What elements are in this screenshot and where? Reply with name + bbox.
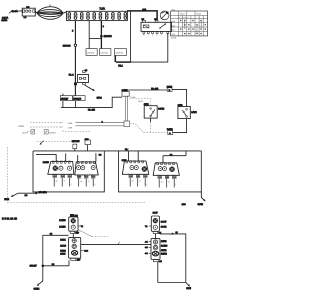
- svg-text:4-3: 4-3: [145, 252, 148, 255]
- svg-text:6: 6: [63, 130, 65, 133]
- svg-text:RL-1/8: RL-1/8: [151, 87, 159, 90]
- svg-text:3C/4A: 3C/4A: [2, 16, 9, 19]
- svg-text:4/57: 4/57: [77, 259, 81, 262]
- svg-text:2: 2: [175, 183, 176, 186]
- svg-text:4-1: 4-1: [145, 241, 148, 244]
- svg-text:8V58: 8V58: [198, 203, 204, 206]
- svg-text:4M/MO: 4M/MO: [49, 131, 56, 134]
- svg-text:8/45: 8/45: [139, 100, 144, 103]
- svg-text:31/4B: 31/4B: [2, 19, 8, 22]
- svg-text:31/51: 31/51: [34, 287, 40, 290]
- svg-text:2: 2: [152, 34, 153, 37]
- svg-text:4/5S: 4/5S: [143, 103, 148, 106]
- svg-text:4B9: 4B9: [85, 138, 90, 141]
- svg-text:4/57: 4/57: [75, 232, 79, 235]
- svg-text:S/C046: S/C046: [63, 44, 71, 47]
- svg-text:11KQ/9: 11KQ/9: [100, 52, 108, 55]
- svg-text:31: 31: [88, 180, 90, 183]
- svg-text:6AT8: 6AT8: [191, 111, 197, 114]
- svg-text:2: 2: [95, 183, 96, 186]
- svg-text:4B: 4B: [80, 180, 83, 183]
- svg-text:3C: 3C: [25, 194, 28, 197]
- svg-text:11KQ/7: 11KQ/7: [61, 97, 69, 100]
- svg-text:S/C005: S/C005: [72, 140, 80, 143]
- svg-text:1O36: 1O36: [60, 245, 66, 248]
- svg-text:RL-1/8: RL-1/8: [88, 108, 96, 111]
- svg-text:16S1: 16S1: [60, 238, 66, 241]
- svg-text:T1: T1: [145, 225, 148, 228]
- svg-text:1O/56: 1O/56: [59, 219, 66, 222]
- svg-text:50-53: 50-53: [196, 12, 201, 15]
- svg-text:15A: 15A: [142, 9, 147, 12]
- svg-text:1 2 3 4 5 6 7: 1 2 3 4 5 6 7: [179, 16, 188, 19]
- svg-text:T1: T1: [81, 225, 84, 228]
- svg-text:1O/30: 1O/30: [161, 245, 168, 248]
- svg-text:8-4/5: 8-4/5: [131, 96, 137, 99]
- svg-text:6/7S: 6/7S: [178, 104, 183, 107]
- svg-text:1638: 1638: [60, 253, 66, 256]
- svg-text:JA/TO: JA/TO: [22, 131, 28, 134]
- svg-text:16S2: 16S2: [60, 249, 66, 252]
- svg-text:4: 4: [161, 34, 162, 37]
- svg-text:RL1: RL1: [118, 65, 123, 68]
- svg-text:6: 6: [103, 25, 104, 28]
- svg-text:66: 66: [176, 231, 178, 234]
- svg-text:3B: 3B: [99, 153, 102, 156]
- svg-text:16K2: 16K2: [161, 249, 167, 252]
- svg-text:11KQ/8: 11KQ/8: [87, 52, 95, 55]
- svg-text:b: b: [102, 120, 103, 123]
- svg-text:B4AH: B4AH: [158, 107, 164, 110]
- svg-text:16/38: 16/38: [161, 253, 167, 256]
- svg-text:7.5A: 7.5A: [99, 8, 105, 11]
- svg-text:1O/15: 1O/15: [43, 161, 50, 164]
- svg-text:E4/1: E4/1: [4, 198, 9, 201]
- svg-text:RL-1: RL-1: [69, 74, 75, 77]
- svg-text:1: 1: [148, 34, 149, 37]
- svg-text:11KQ/6: 11KQ/6: [74, 97, 82, 100]
- svg-text:4-2: 4-2: [145, 246, 148, 249]
- svg-text:1O4: 1O4: [84, 250, 88, 253]
- svg-text:S/C8: S/C8: [97, 96, 103, 99]
- svg-text:F/RB: F/RB: [68, 122, 73, 125]
- svg-text:B 5 31 32 4B: B 5 31 32 4B: [2, 218, 17, 221]
- svg-text:3: 3: [156, 34, 157, 37]
- svg-text:31: 31: [64, 180, 66, 183]
- svg-text:24/38: 24/38: [122, 89, 128, 92]
- svg-text:86: 86: [85, 69, 88, 72]
- svg-text:2: 2: [146, 183, 147, 186]
- svg-text:87: 87: [143, 34, 145, 37]
- svg-text:31: 31: [168, 181, 170, 184]
- svg-text:31: 31: [139, 180, 141, 183]
- svg-text:30-51: 30-51: [180, 12, 185, 15]
- svg-text:S/C4/52: S/C4/52: [38, 191, 47, 194]
- svg-text:1O/58: 1O/58: [59, 225, 66, 228]
- svg-text:6047: 6047: [153, 212, 159, 215]
- svg-text:L/RB: L/RB: [68, 126, 73, 129]
- svg-text:4B: 4B: [132, 180, 135, 183]
- svg-text:31-8A: 31-8A: [12, 10, 18, 13]
- svg-text:6O47: 6O47: [161, 220, 167, 223]
- svg-text:1 2: 1 2: [24, 16, 27, 19]
- svg-text:6: 6: [72, 30, 74, 33]
- svg-text:34/50: 34/50: [18, 125, 24, 128]
- svg-text:2: 2: [71, 183, 72, 186]
- svg-text:4/5: 4/5: [159, 260, 162, 263]
- svg-text:6O43: 6O43: [161, 225, 167, 228]
- svg-text:4B: 4B: [161, 181, 164, 184]
- svg-text:S/C046: S/C046: [104, 35, 113, 38]
- svg-text:31/50: 31/50: [171, 36, 177, 39]
- svg-text:31/5: 31/5: [186, 287, 191, 290]
- svg-text:4B: 4B: [56, 180, 59, 183]
- svg-text:16K3: 16K3: [161, 240, 167, 243]
- svg-text:2/5B: 2/5B: [182, 203, 187, 206]
- svg-text:S/C4/7: S/C4/7: [30, 265, 38, 268]
- svg-text:11KQ/10: 11KQ/10: [115, 52, 124, 55]
